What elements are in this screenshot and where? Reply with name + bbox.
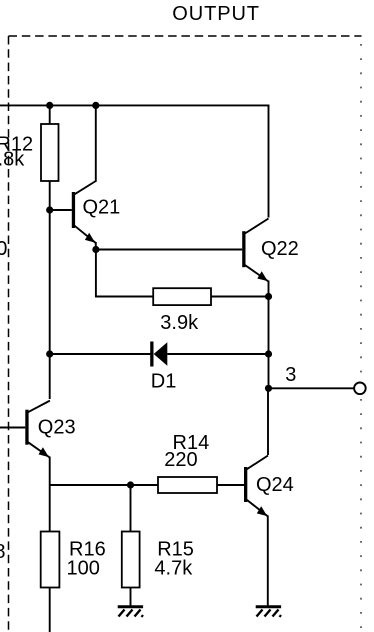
wire: diode row right segment [167, 353, 268, 355]
svg-text:6.8k: 6.8k [0, 149, 25, 171]
Q21 collector diagonal [75, 181, 96, 194]
resistor R12 body [41, 124, 59, 181]
Q24 collector diagonal [247, 456, 268, 470]
wire: diode row left segment [50, 353, 151, 355]
wire: R16 bottom to image edge [49, 588, 51, 632]
wire: Q24 emitter vertical down to ground [267, 516, 269, 606]
Q21 base bar [72, 192, 75, 228]
wire: Q21 base wire [50, 209, 72, 211]
svg-text:3.9k: 3.9k [160, 312, 199, 334]
node junction dot at R15 top row [127, 481, 134, 488]
node junction dot diode row right [265, 350, 272, 357]
transistor Q24 [244, 456, 268, 606]
Q23 emitter arrow [39, 447, 49, 457]
Q22 emitter diagonal [245, 265, 269, 282]
Q24 emitter diagonal [247, 500, 268, 517]
svg-text:0: 0 [0, 238, 7, 260]
border: dashed left edge of output section [8, 36, 10, 632]
border: dotted right edge of output section [360, 44, 362, 632]
wire: R16 top connection [49, 485, 51, 532]
ground symbol under R15 [118, 607, 143, 617]
wire: Q21 emitter stub to node [95, 242, 97, 250]
resistor R15 body [122, 532, 140, 588]
wire: node down to 3.9k resistor row [96, 250, 153, 297]
Q22 collector diagonal [245, 219, 269, 234]
wire: top rail to R12 top [49, 105, 51, 124]
wire: Q22 emitter stub down to node [268, 281, 270, 297]
node junction dot at Q22 emitter / 3.9k [265, 293, 272, 300]
wire: R14 right to Q24 base [217, 484, 244, 486]
border: dashed top edge of output section [9, 35, 362, 37]
resistor R16 body [41, 532, 60, 588]
wire: right vertical output node to Q24 collector [267, 388, 269, 455]
diode D1 cathode bar [150, 342, 153, 367]
Q21 emitter arrow [85, 233, 95, 243]
node junction dot at output [265, 385, 272, 392]
svg-text:8: 8 [0, 541, 6, 563]
wire: R15 bottom to ground [130, 588, 132, 606]
wire: Q23 base wire from left edge [0, 427, 25, 429]
node junction dot at Q21 base [46, 206, 53, 213]
svg-text:220: 220 [164, 449, 197, 471]
wire: 3.9k right side to Q22 emitter node [211, 296, 269, 298]
node junction dot on top rail at Q21 collector [92, 102, 99, 109]
Q21 emitter diagonal [75, 226, 96, 243]
wire: Q21 emitter node to Q22 base [96, 249, 242, 251]
Q22 base bar [242, 231, 245, 267]
svg-text:Q24: Q24 [256, 474, 294, 496]
Q23 collector diagonal [28, 401, 50, 413]
Q22 emitter arrow [257, 271, 267, 281]
svg-text:OUTPUT: OUTPUT [172, 3, 260, 25]
Q23 emitter diagonal [28, 442, 50, 457]
svg-text:Q22: Q22 [261, 238, 299, 260]
wire: left vertical from Q21 base node down to diode row [49, 210, 51, 354]
wire: R15 top connection [130, 485, 132, 532]
wire: output node to terminal [269, 387, 354, 389]
svg-text:3: 3 [285, 364, 296, 386]
transistor Q22 [242, 219, 268, 297]
svg-text:D1: D1 [151, 371, 177, 393]
svg-text:4.7k: 4.7k [154, 557, 193, 579]
node junction dot at Q21 emitter / Q22 base [92, 246, 99, 253]
ground symbol under Q24 emitter [256, 607, 281, 617]
Q23 base bar [25, 410, 28, 445]
wire: Q21 collector vertical to top rail [95, 105, 97, 182]
node junction dot on top rail at R12 [46, 102, 53, 109]
svg-text:Q21: Q21 [83, 197, 121, 219]
wire: Q23 emitter vertical down to bottom row [49, 457, 51, 486]
wire: right vertical from Q22 emitter node to diode row [268, 297, 270, 355]
wire: top supply rail [0, 104, 269, 106]
svg-text:Q23: Q23 [38, 417, 76, 439]
diode D1 triangle [154, 342, 168, 366]
wire: bottom row from Q23 emitter to R14 [50, 484, 158, 486]
resistor R14 body [158, 477, 217, 493]
transistor Q23 [0, 354, 50, 485]
Q24 emitter arrow [257, 506, 267, 516]
Q24 base bar [244, 467, 247, 502]
resistor 3.9k body [153, 288, 211, 305]
transistor Q21 [50, 105, 96, 250]
output terminal circle [354, 383, 366, 395]
wire: Q22 collector vertical to top rail [268, 105, 270, 218]
svg-text:100: 100 [67, 557, 100, 579]
wire: R12 bottom to Q21 base node [49, 181, 51, 210]
node junction dot diode row left [46, 350, 53, 357]
wire: Q23 collector vertical up to diode row [49, 354, 51, 399]
wire: right vertical diode row to output node [268, 354, 270, 388]
